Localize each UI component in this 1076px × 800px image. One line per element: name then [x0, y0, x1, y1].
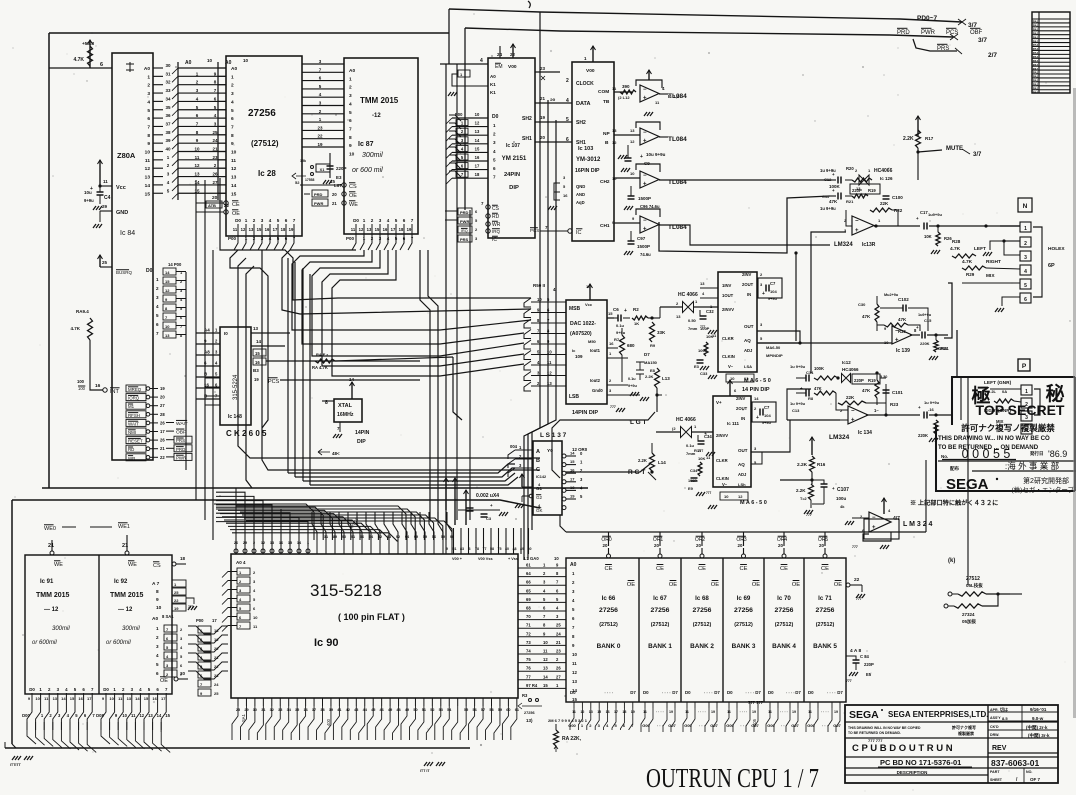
svg-text:TB: TB	[603, 99, 610, 105]
svg-text:OR3: OR3	[736, 537, 747, 543]
svg-text:13: 13	[543, 666, 548, 671]
svg-text:33: 33	[165, 88, 171, 93]
svg-text:V−: V−	[728, 364, 734, 369]
svg-text:−: −	[643, 218, 647, 224]
svg-text:· · ·: · · ·	[740, 723, 746, 728]
svg-text:(中間) 3r-k: (中間) 3r-k	[1028, 732, 1050, 739]
ic LS137 box	[533, 441, 562, 515]
svg-text:390: 390	[622, 84, 630, 89]
svg-text:12: 12	[543, 657, 548, 662]
svg-text:LM324: LM324	[829, 434, 850, 441]
svg-text:11: 11	[131, 713, 136, 718]
Z80A control pins	[126, 385, 146, 392]
svg-text:12: 12	[612, 140, 617, 145]
cap C11 out	[923, 223, 925, 230]
svg-text:Ic13R: Ic13R	[862, 242, 876, 248]
wire vert from PRD trunk	[464, 28, 466, 210]
svg-text:OBF: OBF	[970, 30, 983, 36]
svg-text:+: +	[918, 405, 921, 410]
svg-text:G07: G07	[710, 723, 718, 728]
wire weave 7	[292, 250, 531, 330]
svg-text:PWR: PWR	[176, 455, 186, 460]
bus bottom left corner	[12, 744, 16, 748]
svg-text:4: 4	[1025, 428, 1028, 434]
svg-text:M A 6 - 5 0: M A 6 - 5 0	[740, 500, 767, 506]
svg-text:777: 777	[610, 405, 616, 409]
svg-text:AQ: AQ	[738, 462, 745, 467]
svg-text:+: +	[643, 226, 647, 232]
svg-text:— 12: — 12	[118, 607, 133, 613]
svg-text:5: 5	[156, 313, 159, 318]
svg-text:23: 23	[212, 155, 218, 160]
svg-text:6: 6	[285, 218, 288, 223]
svg-text:3: 3	[231, 91, 234, 97]
svg-text:D7: D7	[837, 690, 843, 695]
svg-text:17558: 17558	[305, 178, 315, 182]
svg-text:74.6u: 74.6u	[640, 252, 651, 257]
svg-text:20: 20	[332, 192, 337, 197]
svg-text:P00: P00	[196, 618, 204, 623]
svg-text:220K: 220K	[920, 341, 930, 346]
svg-text:Ic 84: Ic 84	[120, 230, 135, 237]
svg-text:Iout2: Iout2	[590, 378, 601, 383]
svg-text:A 7: A 7	[152, 581, 160, 587]
svg-text:IC: IC	[492, 237, 497, 243]
svg-text:8 SA1: 8 SA1	[162, 614, 174, 619]
svg-text:7: 7	[147, 124, 150, 130]
svg-text:69: 69	[526, 597, 531, 602]
svg-text:L7 GA0: L7 GA0	[524, 556, 539, 561]
svg-text:0.1u: 0.1u	[628, 377, 636, 381]
svg-text:25: 25	[212, 130, 218, 135]
MB650a out wire	[757, 331, 800, 343]
svg-text:LSh: LSh	[738, 482, 746, 487]
title block cols	[987, 705, 989, 783]
svg-text:17: 17	[391, 227, 396, 232]
svg-text:30: 30	[165, 63, 171, 68]
svg-text:R9: R9	[650, 343, 656, 348]
svg-text:IRQ: IRQ	[461, 229, 468, 233]
svg-text:+: +	[640, 154, 643, 160]
svg-text:C30: C30	[858, 302, 866, 307]
svg-text:DRW.: DRW.	[990, 733, 999, 737]
svg-text:· · ·: · · ·	[822, 723, 828, 728]
ic DAC1022 box	[566, 300, 607, 404]
svg-text:D7: D7	[755, 690, 761, 695]
svg-text:13: 13	[475, 129, 480, 134]
svg-text:19: 19	[540, 115, 546, 120]
svg-text:19: 19	[174, 606, 179, 611]
svg-text:BANK 4: BANK 4	[772, 643, 796, 650]
svg-text:OR2: OR2	[695, 537, 706, 543]
svg-text:or 600mil: or 600mil	[106, 640, 131, 646]
svg-text:777 777: 777 777	[748, 700, 764, 705]
svg-text:ATB: ATB	[208, 203, 216, 208]
svg-text:TL084: TL084	[668, 136, 687, 143]
svg-text::海 外 事 業 部: :海 外 事 業 部	[1005, 461, 1060, 471]
svg-text:4: 4	[387, 218, 390, 223]
resistor 680	[620, 335, 625, 355]
svg-text:RA 22K,: RA 22K,	[562, 736, 582, 742]
svg-text:26: 26	[160, 420, 165, 425]
svg-text:· · ·: · · ·	[699, 723, 705, 728]
svg-text:26: 26	[556, 666, 561, 671]
svg-text:+: +	[851, 417, 855, 423]
svg-text:25: 25	[102, 260, 108, 265]
svg-text:CS: CS	[349, 184, 357, 190]
resistor L14 2.2k	[650, 470, 653, 473]
svg-text:14: 14	[157, 713, 162, 718]
svg-text:77: 77	[526, 674, 531, 679]
svg-text:OUT: OUT	[738, 448, 748, 453]
right edge scan strip	[1073, 88, 1076, 718]
svg-text:2.2K: 2.2K	[645, 374, 654, 379]
bank left wires	[518, 567, 566, 569]
svg-text:Ic 69: Ic 69	[737, 595, 751, 602]
svg-text:22: 22	[174, 598, 179, 603]
svg-text:D0: D0	[235, 218, 241, 223]
svg-text:1INV: 1INV	[722, 283, 732, 288]
ic 27256 IC28 box	[226, 56, 302, 236]
svg-text:7: 7	[231, 124, 234, 130]
svg-text:CLKR: CLKR	[716, 458, 728, 463]
op2 cap C9	[627, 145, 629, 158]
svg-text:A0: A0	[349, 68, 355, 74]
ic CK2605 box	[220, 327, 251, 425]
svg-text:CLKIN: CLKIN	[722, 354, 735, 359]
svg-text:CR31: CR31	[938, 346, 949, 351]
svg-text:14PIN: 14PIN	[355, 430, 370, 436]
svg-text:3: 3	[156, 295, 159, 300]
svg-text:1u 9+9u: 1u 9+9u	[790, 401, 806, 406]
svg-text:19: 19	[669, 710, 673, 714]
svg-text:CE: CE	[656, 566, 664, 572]
svg-text:1u9+9u: 1u9+9u	[928, 212, 942, 217]
svg-text:73: 73	[526, 640, 531, 645]
YM2151 left top pins	[440, 63, 488, 65]
svg-text:PRS: PRS	[937, 46, 949, 52]
svg-text:TMM 2015: TMM 2015	[360, 96, 399, 105]
svg-text:I0: I0	[224, 331, 228, 336]
svg-text:2: 2	[1025, 402, 1028, 408]
svg-text:13: 13	[165, 333, 170, 338]
svg-text:24: 24	[556, 631, 561, 636]
svg-text:14: 14	[135, 696, 140, 701]
svg-text:D7: D7	[630, 690, 636, 695]
svg-text:20: 20	[603, 543, 608, 548]
svg-text:26: 26	[212, 172, 218, 177]
svg-text:8: 8	[231, 133, 234, 139]
svg-text:14 P00: 14 P00	[168, 262, 182, 267]
svg-text:R3: R3	[522, 693, 528, 698]
svg-text:14PIN DIP: 14PIN DIP	[572, 410, 598, 416]
svg-text:2: 2	[147, 83, 150, 89]
svg-text:SEGA: SEGA	[849, 709, 879, 721]
svg-text:X1: X1	[320, 168, 325, 172]
connector pin3	[1020, 251, 1031, 261]
svg-text:11: 11	[233, 227, 238, 232]
svg-text:13: 13	[148, 713, 153, 718]
svg-text:Vcc: Vcc	[585, 302, 593, 307]
svg-text:14: 14	[586, 284, 591, 289]
svg-text:BUSRQ: BUSRQ	[116, 270, 133, 275]
svg-text:Mu2+9u: Mu2+9u	[884, 293, 899, 297]
svg-text:G00: G00	[642, 723, 650, 728]
svg-text:PD0~7: PD0~7	[917, 15, 937, 22]
svg-text:21: 21	[160, 446, 165, 451]
svg-text:6: 6	[349, 118, 352, 124]
svg-text:−: −	[872, 515, 876, 521]
svg-text:D0: D0	[643, 690, 649, 695]
svg-text:8: 8	[147, 133, 150, 139]
MB650b right sub box	[752, 402, 776, 422]
wire top border	[49, 32, 449, 34]
svg-text:17: 17	[475, 164, 480, 169]
svg-text:777: 777	[856, 597, 862, 601]
crystal XTAL box	[334, 399, 362, 422]
svg-text:3: 3	[1024, 255, 1027, 261]
315 top pins	[234, 549, 238, 553]
svg-text:E3: E3	[336, 175, 342, 180]
svg-text:PRD: PRD	[314, 192, 323, 197]
svg-text:C100: C100	[892, 195, 903, 200]
svg-text:NMI: NMI	[128, 430, 136, 435]
svg-text:19: 19	[792, 710, 796, 714]
svg-text:(A07520): (A07520)	[570, 331, 592, 337]
svg-text:SH1: SH1	[576, 140, 586, 146]
svg-text:15: 15	[475, 146, 480, 151]
svg-text:13: 13	[53, 696, 58, 701]
svg-text:or 600 mil: or 600 mil	[352, 167, 383, 174]
svg-text:15: 15	[231, 191, 237, 197]
svg-text:9+9u: 9+9u	[628, 384, 637, 388]
svg-text:COM: COM	[598, 89, 609, 95]
svg-text:2: 2	[566, 78, 569, 84]
svg-text:21: 21	[540, 96, 546, 101]
svg-text:1: 1	[156, 626, 159, 631]
svg-text:12: 12	[231, 166, 237, 172]
svg-text:10: 10	[231, 150, 237, 156]
svg-text:3: 3	[469, 547, 471, 551]
svg-text:25: 25	[174, 590, 179, 595]
svg-text:CE: CE	[739, 566, 747, 572]
svg-text:19: 19	[752, 710, 756, 714]
svg-text:Gnd0: Gnd0	[592, 388, 603, 393]
svg-text:DATA: DATA	[576, 101, 590, 107]
svg-text:13: 13	[572, 679, 577, 684]
wire vert from PD trunk	[448, 9, 450, 64]
svg-text:10: 10	[243, 58, 249, 63]
svg-text:QND: QND	[576, 184, 585, 189]
svg-text:5: 5	[277, 218, 280, 223]
svg-text:5: 5	[349, 110, 352, 116]
resistor 4.7k pullup	[89, 40, 91, 68]
connector P box	[1018, 359, 1030, 371]
svg-text:D0: D0	[768, 690, 774, 695]
svg-text:3/7: 3/7	[973, 152, 982, 158]
svg-text:27256: 27256	[524, 711, 535, 715]
svg-text:3: 3	[147, 91, 150, 97]
svg-text:D0: D0	[570, 690, 576, 695]
svg-text:27256: 27256	[734, 607, 753, 614]
svg-text:E3: E3	[694, 364, 700, 369]
svg-text:SEGA: SEGA	[946, 476, 989, 493]
svg-text:THIS DRAWING WILL IN NO WAY BE: THIS DRAWING WILL IN NO WAY BE COPIED	[848, 726, 921, 730]
svg-text:12 OR0: 12 OR0	[572, 447, 588, 452]
svg-text:2: 2	[493, 132, 496, 137]
svg-text:52: 52	[295, 180, 300, 185]
svg-text:11: 11	[231, 158, 236, 164]
svg-text:E5: E5	[866, 672, 872, 677]
svg-text:IN: IN	[747, 292, 751, 297]
svg-text:24: 24	[212, 138, 218, 143]
svg-text:A4: A4	[204, 328, 210, 333]
svg-text:D7: D7	[795, 690, 801, 695]
svg-text:5: 5	[156, 662, 159, 667]
svg-text:1u 9+9u: 1u 9+9u	[924, 400, 940, 405]
svg-text:14: 14	[256, 339, 262, 344]
svg-text:2INV: 2INV	[742, 272, 752, 277]
svg-text:+: +	[643, 138, 647, 144]
svg-text:C: C	[536, 467, 540, 473]
svg-text:72: 72	[526, 631, 531, 636]
svg-text:PRD: PRD	[176, 447, 185, 452]
svg-text:100K: 100K	[814, 366, 824, 371]
svg-text:(27512): (27512)	[251, 139, 279, 148]
svg-text:2: 2	[253, 218, 256, 223]
svg-text:· · · ·: · · · ·	[662, 690, 671, 695]
svg-text:76: 76	[526, 666, 531, 671]
svg-text:C12: C12	[824, 177, 832, 182]
svg-text:19: 19	[570, 494, 575, 499]
capacitor 220p bus	[329, 153, 331, 166]
svg-text:777: 777	[806, 513, 812, 517]
ic MB6-50a box	[718, 272, 757, 372]
svg-text:1500P: 1500P	[637, 244, 650, 249]
svg-text:29: 29	[102, 204, 108, 209]
svg-text:11: 11	[145, 158, 150, 164]
capacitor C6	[614, 317, 618, 319]
svg-text:C97: C97	[637, 236, 646, 241]
resistor RA4.7k	[315, 359, 335, 363]
svg-text:22K: 22K	[846, 395, 855, 400]
svg-text:A0 4: A0 4	[236, 560, 246, 565]
svg-text:15: 15	[330, 179, 336, 184]
svg-text:1: 1	[147, 74, 150, 80]
MB650b bottom	[720, 492, 748, 500]
svg-text:6: 6	[403, 218, 406, 223]
svg-text:18: 18	[281, 227, 286, 232]
svg-text:Ic 67: Ic 67	[653, 595, 667, 602]
svg-text:19: 19	[214, 637, 219, 642]
svg-text:M1: M1	[128, 404, 135, 409]
svg-text:9/16-'01: 9/16-'01	[1030, 707, 1047, 712]
svg-text:C107: C107	[837, 487, 849, 493]
svg-text:4.7K: 4.7K	[962, 259, 973, 265]
svg-text:G2: G2	[536, 495, 543, 500]
svg-text:17: 17	[160, 429, 165, 434]
svg-text:WR: WR	[492, 222, 501, 228]
svg-text:004: 004	[510, 444, 518, 449]
svg-text:8.5: 8.5	[1002, 716, 1008, 721]
svg-text:13: 13	[630, 128, 635, 133]
svg-text:CE: CE	[821, 566, 829, 572]
svg-text:10: 10	[207, 58, 213, 63]
svg-text:ADJ: ADJ	[744, 348, 753, 353]
svg-text:16MHz: 16MHz	[337, 412, 354, 418]
svg-text:ITT IT: ITT IT	[420, 769, 430, 773]
svg-text:20: 20	[819, 543, 824, 548]
svg-text:HC 4066: HC 4066	[676, 417, 696, 423]
svg-text:4: 4	[1024, 269, 1027, 275]
svg-text:16: 16	[265, 227, 270, 232]
svg-text:28: 28	[160, 412, 165, 417]
svg-text:2INV: 2INV	[736, 396, 746, 401]
svg-text:777: 777	[846, 679, 852, 683]
svg-text:HOLEX: HOLEX	[1048, 246, 1065, 252]
svg-text:10: 10	[122, 713, 127, 718]
bus rail A	[177, 62, 179, 200]
opamp IC13 lower	[848, 406, 868, 424]
svg-text:27256: 27256	[693, 607, 712, 614]
gnd DAC cluster	[616, 408, 619, 412]
svg-text:5: 5	[566, 117, 569, 123]
svg-text:9: 9	[231, 141, 234, 147]
svg-text:−: −	[643, 87, 647, 93]
svg-text:10: 10	[165, 324, 170, 329]
svg-text:10: 10	[572, 652, 577, 657]
svg-text:G07: G07	[668, 723, 676, 728]
svg-text:22: 22	[854, 577, 860, 583]
connector pin2	[1020, 237, 1031, 247]
svg-text:WAIT: WAIT	[128, 421, 139, 426]
bus verticals mid	[185, 272, 187, 470]
svg-text:9+9u: 9+9u	[768, 297, 777, 301]
svg-text:D00: D00	[22, 713, 30, 718]
svg-text:E8: E8	[650, 368, 656, 373]
svg-text:D7: D7	[714, 690, 720, 695]
wire weave 9b	[322, 250, 524, 366]
svg-text:3: 3	[261, 218, 264, 223]
svg-text:REV: REV	[992, 745, 1007, 752]
svg-text:Ic 71: Ic 71	[818, 595, 832, 602]
svg-text:BANK 3: BANK 3	[732, 643, 756, 650]
svg-text:16: 16	[78, 696, 83, 701]
svg-text:6: 6	[156, 322, 159, 327]
svg-text:19: 19	[834, 710, 838, 714]
svg-text:4: 4	[269, 218, 272, 223]
svg-text:10: 10	[253, 615, 258, 620]
svg-text:WE: WE	[349, 202, 358, 208]
connector N box	[1018, 198, 1032, 212]
svg-text:22: 22	[317, 134, 323, 139]
svg-text:14: 14	[194, 180, 200, 185]
svg-text:OR4: OR4	[777, 537, 788, 543]
svg-text:Ic 111: Ic 111	[727, 421, 740, 426]
svg-text:100u: 100u	[836, 496, 847, 501]
wire weave 11	[428, 250, 438, 520]
wire weave 9	[312, 250, 524, 356]
svg-text:23: 23	[556, 649, 561, 654]
svg-text:15: 15	[543, 683, 548, 688]
svg-text:14: 14	[754, 396, 759, 401]
svg-text:27324: 27324	[962, 612, 975, 617]
MB650b out wire	[751, 420, 790, 452]
svg-text:(27512): (27512)	[775, 622, 794, 628]
svg-text:C7: C7	[764, 405, 770, 410]
YM2151 ctrl pins	[486, 205, 490, 209]
svg-text:680: 680	[627, 343, 635, 348]
